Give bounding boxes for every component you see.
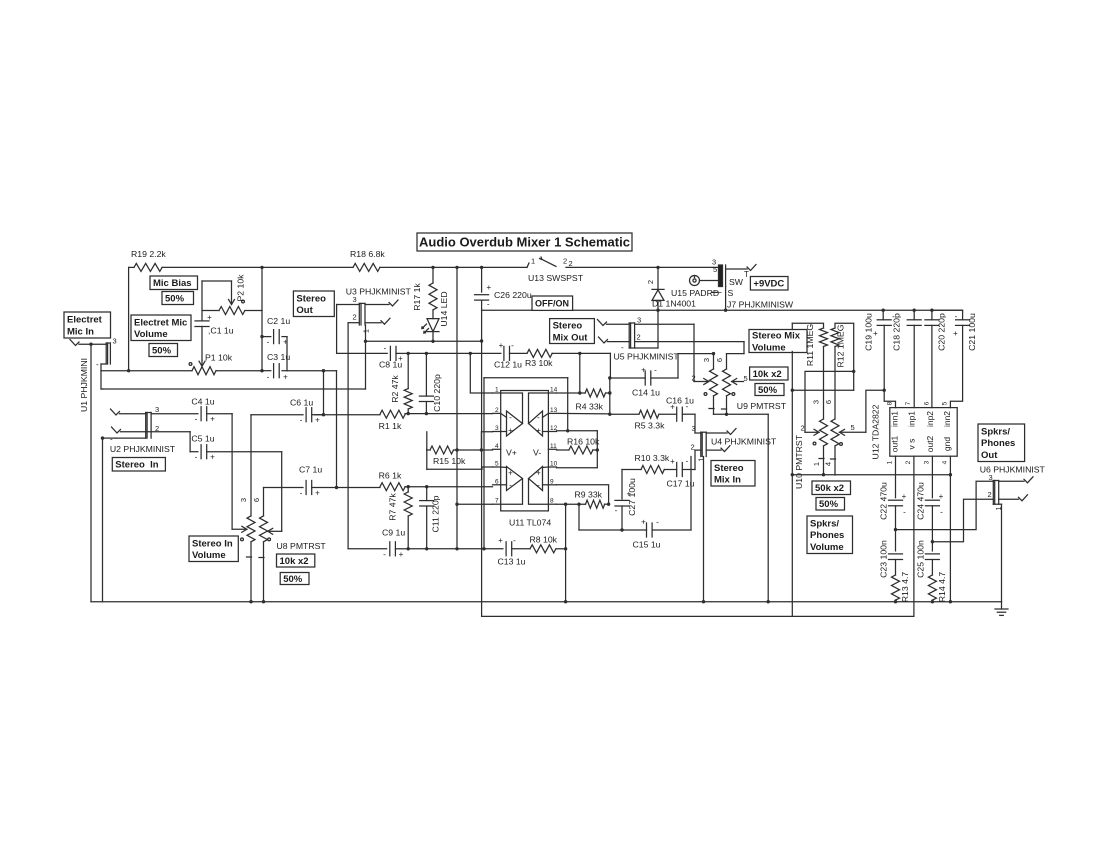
svg-text:Out: Out [296, 305, 313, 316]
svg-text:Stereo In: Stereo In [115, 460, 158, 471]
label box Stereo Mix In [711, 461, 755, 487]
svg-text:-: - [654, 366, 657, 375]
capacitor C9 1u [382, 528, 457, 560]
svg-text:C26 220u: C26 220u [494, 290, 532, 300]
capacitor C22 470u [879, 482, 907, 551]
svg-text:3: 3 [812, 400, 821, 404]
capacitor C16 1u [659, 396, 695, 422]
svg-text:3: 3 [353, 295, 357, 304]
wire C16 to U4 pin3 [695, 414, 701, 433]
svg-text:3: 3 [113, 337, 117, 346]
svg-text:-: - [267, 338, 270, 347]
svg-text:6: 6 [924, 401, 931, 405]
ground symbol [995, 602, 1008, 616]
wire C27 top to R10 row [622, 469, 641, 471]
svg-text:C2 1u: C2 1u [267, 316, 290, 326]
pot pair U10 PMTRST (speaker volume) [794, 400, 866, 489]
svg-text:6: 6 [715, 358, 724, 362]
label box Stereo In [112, 458, 165, 472]
svg-text:3: 3 [495, 425, 499, 432]
svg-text:-: - [300, 489, 303, 498]
svg-text:Stereo: Stereo [553, 321, 583, 332]
svg-text:R6 1k: R6 1k [379, 471, 402, 481]
svg-text:9: 9 [550, 478, 554, 485]
svg-text:3: 3 [637, 316, 641, 325]
wire R9 left drop to C15 row [579, 504, 647, 532]
label box U10 50% [816, 498, 845, 511]
label box Electret Mic Volume [131, 315, 191, 341]
svg-text:2: 2 [646, 280, 655, 284]
svg-text:+: + [939, 492, 944, 501]
svg-text:U2 PHJKMINIST: U2 PHJKMINIST [110, 444, 176, 454]
svg-text:+: + [283, 373, 288, 382]
wire channel-B row y486 (to op-amp pin 6) [335, 485, 493, 489]
svg-text:R13 4.7: R13 4.7 [900, 572, 910, 603]
svg-text:Volume: Volume [752, 342, 786, 353]
jack U3 PHJKMINIST [346, 287, 412, 334]
pot pair U9 PMTRST (stereo mix volume) [692, 354, 787, 415]
wire y390 row [792, 389, 853, 391]
svg-text:U13 SWSPST: U13 SWSPST [528, 273, 584, 283]
svg-text:C15 1u: C15 1u [633, 540, 661, 550]
svg-text:C6 1u: C6 1u [290, 398, 313, 408]
wire R3 output to x579 and x610 drops [552, 352, 610, 415]
label box U8 10k x2 [277, 554, 315, 567]
svg-text:1: 1 [812, 462, 821, 466]
svg-text:P2 10k: P2 10k [236, 274, 246, 302]
svg-text:Out: Out [981, 450, 998, 461]
svg-text:Spkrs/: Spkrs/ [810, 518, 839, 529]
svg-text:+: + [536, 426, 541, 435]
svg-text:-: - [384, 344, 387, 353]
svg-text:−: − [717, 288, 722, 298]
svg-text:+: + [210, 453, 215, 462]
capacitor C23 100n [879, 540, 903, 578]
svg-text:2: 2 [569, 259, 573, 268]
svg-text:-: - [267, 373, 270, 382]
svg-text:+: + [641, 366, 646, 375]
svg-text:S: S [728, 288, 734, 298]
wire P2 left / C2 branch vertical x262 [260, 311, 263, 371]
capacitor C2 1u [262, 316, 290, 347]
wire U6 sleeve to ground [1001, 504, 1003, 602]
svg-text:+: + [315, 489, 320, 498]
svg-text:-: - [509, 413, 512, 422]
wire P2 right to top rail [260, 266, 263, 311]
svg-text:C10 220p: C10 220p [432, 374, 442, 412]
wire U5 ring to U9 right pot top [635, 342, 744, 354]
svg-text:-: - [96, 360, 99, 369]
resistor R5 3.3k [635, 410, 666, 430]
V+ supply bus2 (bottom) [482, 615, 914, 617]
wire U5 tip to U9 left wiper [635, 324, 694, 381]
resistor R8 10k [530, 534, 568, 552]
svg-text:50%: 50% [152, 345, 172, 356]
op-amp IC U11 TL074 body [501, 391, 552, 528]
svg-text:2: 2 [637, 333, 641, 342]
svg-text:2: 2 [495, 407, 499, 414]
capacitor C26 220u [475, 267, 532, 310]
svg-text:-: - [537, 481, 540, 490]
svg-text:+: + [398, 354, 403, 363]
svg-text:2: 2 [691, 443, 695, 452]
capacitor C8 1u [379, 344, 408, 370]
svg-text:OFF/ON: OFF/ON [535, 298, 569, 308]
svg-text:-: - [511, 341, 514, 350]
resistor R19 [131, 249, 166, 271]
wire C5 to U8 right wiper [281, 452, 283, 532]
svg-text:2: 2 [801, 424, 805, 433]
wire C17 to U4 pin2 [695, 450, 701, 469]
svg-text:+: + [508, 426, 513, 435]
svg-text:7: 7 [905, 401, 912, 405]
capacitor C25 100n [916, 540, 940, 578]
wire pin1 output to input row (x470 riser) [469, 352, 493, 393]
wire C15 right to U4 sleeve area [690, 457, 692, 531]
vertical rail to bus2 through C26 column [480, 310, 483, 616]
jack U2 PHJKMINIST [110, 405, 176, 454]
wire U12 pin2 (vs) to bus2 [913, 456, 915, 616]
svg-text:-: - [300, 416, 303, 425]
svg-text:V+: V+ [506, 448, 517, 458]
resistor R10 3.3k [635, 453, 670, 474]
wire pin7 row [457, 503, 493, 505]
svg-text:V-: V- [533, 448, 541, 458]
wire +9V switched rail (top) [129, 266, 527, 269]
wire U3 tip to C8 (x336.6 drop) [337, 305, 388, 354]
svg-text:5: 5 [495, 461, 499, 468]
wire U9 bottoms to ground drop x768 [714, 413, 769, 602]
svg-text:R7 47k: R7 47k [388, 493, 398, 521]
svg-text:R17 1k: R17 1k [412, 283, 422, 311]
capacitor C6 1u [251, 398, 324, 425]
capacitor C13 1u [457, 536, 530, 566]
capacitor C12 1u [494, 341, 527, 370]
svg-text:C5 1u: C5 1u [191, 434, 214, 444]
svg-text:U14 LED: U14 LED [439, 291, 449, 326]
svg-text:-: - [110, 435, 113, 444]
amplifier IC U12 TDA2822 [871, 401, 958, 464]
capacitor C27 100u [615, 470, 637, 531]
svg-text:50%: 50% [283, 574, 303, 585]
U11 left pin stubs 1-7 [493, 387, 501, 505]
svg-text:-: - [940, 508, 943, 517]
capacitor C11 220p [420, 487, 441, 549]
svg-text:2: 2 [988, 490, 992, 499]
resistor R1 1k [379, 410, 406, 431]
svg-text:-: - [383, 550, 386, 559]
op-amp B (U11 top-right) [529, 393, 549, 436]
svg-text:C20 220p: C20 220p [937, 313, 947, 351]
svg-text:inp2: inp2 [925, 411, 935, 427]
svg-text:-: - [686, 457, 689, 466]
svg-text:10: 10 [550, 461, 558, 468]
resistor R6 1k [379, 471, 406, 491]
svg-text:U4 PHJKMINIST: U4 PHJKMINIST [711, 437, 777, 447]
svg-text:U5 PHJKMINIST: U5 PHJKMINIST [614, 352, 680, 362]
jack U5 PHJKMINIST [598, 316, 680, 362]
potentiometer P1 10k [189, 353, 233, 375]
svg-text:Electret Mic: Electret Mic [134, 317, 187, 328]
wire C24/C25 node to U6 ring [932, 499, 993, 541]
svg-text:R19 2.2k: R19 2.2k [131, 249, 166, 259]
label box 50k x2 [812, 481, 851, 495]
resistor R4 33k [576, 389, 612, 411]
svg-text:gnd: gnd [942, 437, 952, 451]
label box Spkrs/Phones Out [978, 424, 1025, 462]
svg-text:Mix In: Mix In [714, 475, 741, 486]
svg-text:Mic Bias: Mic Bias [153, 278, 192, 289]
wire U10 right wiper to C19 bottom column [866, 389, 886, 433]
svg-text:Stereo: Stereo [296, 293, 326, 304]
svg-text:+: + [902, 492, 907, 501]
svg-text:Mix Out: Mix Out [553, 332, 589, 343]
svg-text:3: 3 [989, 473, 993, 482]
svg-text:3: 3 [155, 405, 159, 414]
wire input bus y389 (U1 to U3 sleeve riser) [103, 388, 366, 390]
svg-text:U10 PMTRST: U10 PMTRST [794, 434, 804, 489]
wire U12 pin3 to C24 [931, 456, 933, 498]
svg-text:+: + [499, 341, 504, 350]
svg-text:50%: 50% [758, 385, 778, 396]
resistor R13 4.7 [892, 572, 911, 603]
capacitor C5 1u [146, 432, 282, 462]
svg-text:R10 3.3k: R10 3.3k [635, 453, 670, 463]
resistor R17 1k [412, 267, 437, 318]
jack U6 PHJKMINIST [980, 465, 1046, 511]
svg-text:4: 4 [495, 443, 499, 450]
svg-text:C25 100n: C25 100n [916, 540, 926, 578]
capacitor C15 1u [633, 518, 692, 550]
svg-text:R8 10k: R8 10k [530, 534, 558, 544]
svg-text:1: 1 [887, 460, 894, 464]
resistor R15 10k [427, 432, 493, 466]
svg-text:-: - [903, 508, 906, 517]
op-amp D (U11 bottom-right) [529, 467, 549, 505]
svg-text:out1: out1 [890, 435, 900, 452]
svg-text:+9VDC: +9VDC [753, 279, 784, 290]
svg-text:5: 5 [851, 423, 855, 432]
svg-text:Stereo In: Stereo In [192, 538, 233, 549]
capacitor C7 1u [264, 465, 337, 498]
svg-text:J7 PHJKMINISW: J7 PHJKMINISW [727, 300, 794, 310]
label box Stereo Mix Volume [749, 330, 807, 354]
capacitor C18 220p [891, 310, 921, 407]
svg-text:C12 1u: C12 1u [494, 360, 522, 370]
svg-text:C22 470u: C22 470u [879, 482, 889, 520]
wire x792 node vertical [791, 323, 794, 616]
resistor R12 1MEG [831, 323, 854, 419]
wire channel-A row y414 (to op-amp pin 2) [315, 412, 493, 417]
svg-text:1: 1 [531, 257, 535, 266]
svg-text:R3 10k: R3 10k [525, 358, 553, 368]
label box U9 50% [755, 384, 784, 396]
wire pin3/R15 left link [426, 449, 428, 469]
svg-text:C24 470u: C24 470u [916, 482, 926, 520]
svg-text:U1 PHJKMINI: U1 PHJKMINI [79, 358, 89, 412]
resistor R11 1MEG [792, 323, 827, 419]
svg-text:+: + [626, 490, 631, 499]
svg-text:R16 10k: R16 10k [567, 437, 600, 447]
resistor R14 4.7 [928, 572, 947, 603]
svg-text:8: 8 [550, 498, 554, 505]
svg-text:7: 7 [495, 498, 499, 505]
svg-text:10k x2: 10k x2 [753, 369, 782, 380]
label box Stereo Mix Out [550, 319, 595, 344]
svg-text:2: 2 [905, 460, 912, 464]
jack U1 PHJKMINI [70, 337, 117, 413]
switch U13 SWSPST [527, 257, 584, 284]
svg-text:+: + [670, 403, 675, 412]
resistor R2 47k [390, 353, 412, 413]
svg-text:50%: 50% [819, 499, 839, 510]
svg-text:4: 4 [824, 462, 833, 466]
svg-text:inn2: inn2 [942, 411, 952, 427]
label box Mic Bias [150, 276, 198, 290]
wire C4 to U8 left wiper [231, 414, 233, 530]
ground bus (bottom) [91, 600, 1002, 603]
potentiometer P2 10k [202, 274, 262, 315]
svg-text:3: 3 [239, 498, 248, 502]
svg-text:1: 1 [697, 457, 706, 461]
svg-text:5: 5 [713, 265, 717, 274]
svg-text:U12 TDA2822: U12 TDA2822 [871, 404, 881, 459]
svg-text:U9 PMTRST: U9 PMTRST [737, 401, 787, 411]
svg-text:+: + [536, 469, 541, 478]
svg-text:+: + [670, 457, 675, 466]
svg-text:D1 1N4001: D1 1N4001 [652, 299, 696, 309]
svg-text:R4 33k: R4 33k [576, 401, 604, 411]
svg-text:-: - [537, 413, 540, 422]
wire +9V unswitched bus (C26 bottom to bypass caps) [482, 287, 963, 312]
svg-text:R11 1MEG: R11 1MEG [805, 324, 815, 367]
svg-text:P1 10k: P1 10k [205, 353, 233, 363]
svg-text:-: - [615, 506, 618, 515]
svg-text:Mic In: Mic In [67, 326, 94, 337]
capacitor C24 470u [916, 482, 944, 551]
svg-text:3: 3 [924, 460, 931, 464]
svg-text:1: 1 [495, 387, 499, 394]
svg-text:2: 2 [563, 257, 567, 266]
resistor R18 [350, 249, 385, 271]
capacitor C1 1u [195, 281, 234, 360]
resistor R3 10k [525, 349, 553, 368]
svg-text:+: + [953, 329, 958, 338]
svg-text:R9 33k: R9 33k [575, 489, 603, 499]
capacitor C21 100u [932, 310, 977, 407]
svg-text:50k x2: 50k x2 [815, 483, 844, 494]
svg-text:C13 1u: C13 1u [498, 556, 526, 566]
wire pin13 to R5 row [557, 412, 640, 415]
capacitor C17 1u [664, 457, 695, 489]
label box Spkrs/Phones Volume [807, 516, 853, 554]
title box [417, 233, 632, 251]
wire mic signal row y371 [101, 267, 271, 372]
svg-text:C4 1u: C4 1u [191, 397, 214, 407]
svg-text:+: + [498, 536, 503, 545]
svg-text:C23 100n: C23 100n [879, 540, 889, 578]
svg-text:8: 8 [887, 401, 894, 405]
label box Electret Mic Volume 50% [149, 344, 178, 357]
wire U4 sleeve to ground bus [703, 457, 705, 602]
svg-text:C14 1u: C14 1u [632, 387, 660, 397]
svg-text:6: 6 [824, 400, 833, 404]
vertical supply feed V+ left of U11 [455, 267, 458, 550]
svg-text:SW: SW [729, 277, 744, 287]
svg-text:-: - [686, 402, 689, 411]
wire pin9 to R9 right [557, 485, 611, 506]
resistor R7 47k [388, 487, 413, 549]
svg-text:Volume: Volume [810, 542, 844, 553]
wire U10 bottoms to x792 and U12 gnd [791, 473, 951, 476]
svg-text:+: + [641, 518, 646, 527]
svg-text:Volume: Volume [134, 329, 168, 340]
diode U15/D1 1N4001 [646, 267, 719, 310]
resistor R16 10k [557, 437, 601, 454]
svg-text:2: 2 [353, 313, 357, 322]
svg-text:Phones: Phones [810, 530, 844, 541]
U11 right pin stubs 8-14 [548, 387, 557, 505]
label box U9 10k x2 [750, 367, 788, 380]
svg-text:6: 6 [252, 498, 261, 502]
svg-text:R5 3.3k: R5 3.3k [635, 421, 666, 431]
wire U3 ring riser to C9 row [348, 323, 387, 549]
svg-text:R1 1k: R1 1k [379, 421, 402, 431]
svg-text:-: - [509, 481, 512, 490]
wire C2/C3 join to x323 drop [287, 337, 337, 488]
svg-text:Stereo Mix: Stereo Mix [752, 331, 801, 342]
wire R8 right drop [565, 504, 567, 602]
wire U12 pin1 to C22 [895, 456, 897, 498]
label box Electret Mic In [64, 312, 111, 338]
svg-text:R14 4.7: R14 4.7 [937, 572, 947, 603]
wire R16 feedback loop (pins 12/10) [557, 429, 598, 468]
svg-text:inp1: inp1 [907, 411, 917, 427]
svg-text:C19 100u: C19 100u [864, 313, 874, 351]
wire pin14 to R4 left [557, 391, 586, 394]
svg-text:C7 1u: C7 1u [299, 465, 322, 475]
op-amp A (U11 top-left) [501, 393, 523, 436]
svg-text:+: + [873, 329, 878, 338]
capacitor C19 100u [864, 310, 896, 407]
svg-text:+: + [315, 416, 320, 425]
svg-text:+: + [508, 469, 513, 478]
svg-text:-: - [487, 300, 490, 309]
svg-text:Audio Overdub Mixer 1 Schemati: Audio Overdub Mixer 1 Schematic [419, 235, 630, 250]
wire C14 to U9 left pot top [678, 352, 715, 378]
svg-text:Volume: Volume [192, 550, 226, 561]
svg-text:3: 3 [692, 424, 696, 433]
pot pair U8 PMTRST (stereo volume) [232, 415, 326, 602]
label box +9VDC [750, 277, 788, 291]
wire U2 sleeve drop to ground bus [101, 436, 116, 601]
capacitor C14 1u [610, 366, 678, 398]
svg-text:-: - [955, 312, 958, 321]
svg-text:C21 100u: C21 100u [967, 313, 977, 351]
svg-text:Electret: Electret [67, 315, 103, 326]
capacitor C4 1u [151, 397, 232, 424]
svg-text:v s: v s [907, 439, 917, 450]
label box OFF/ON [532, 296, 573, 310]
svg-text:6: 6 [495, 478, 499, 485]
svg-text:R18 6.8k: R18 6.8k [350, 249, 385, 259]
label box U8 50% [280, 573, 309, 585]
svg-text:inn1: inn1 [890, 411, 900, 427]
svg-text:U11 TL074: U11 TL074 [509, 518, 551, 528]
wire C22/C23 node to U6 tip [896, 481, 994, 529]
svg-text:+: + [207, 313, 212, 322]
svg-text:,C1 1u: ,C1 1u [208, 326, 234, 336]
